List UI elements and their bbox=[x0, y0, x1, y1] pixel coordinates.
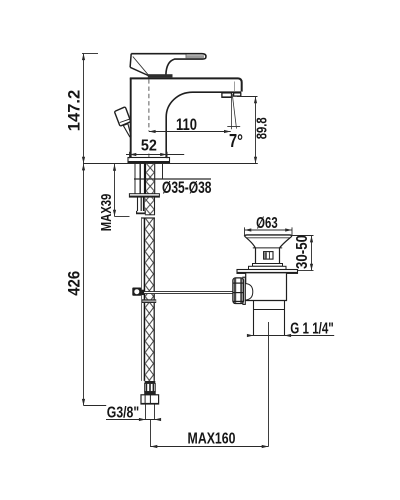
deck line bbox=[83, 163, 258, 165]
svg-text:52: 52 bbox=[141, 138, 157, 155]
dimension MAX39 bbox=[98, 164, 130, 231]
pop-up rod knob bbox=[115, 107, 131, 137]
pop-up rod (below deck) bbox=[135, 163, 140, 193]
threaded shank with hose (above mounting nut) bbox=[144, 163, 155, 193]
hose sleeve clip bbox=[142, 299, 156, 303]
label diameter 35-38 bbox=[162, 178, 212, 197]
linkage rod bbox=[143, 291, 233, 293]
mounting washer bbox=[129, 194, 159, 198]
mounting nut bbox=[137, 197, 155, 215]
faucet handle lever bbox=[130, 54, 206, 76]
svg-text:110: 110 bbox=[176, 116, 197, 134]
drain steps bbox=[249, 264, 287, 270]
faucet cartridge ring (dark band) bbox=[148, 74, 173, 77]
drain neck bbox=[256, 248, 280, 264]
svg-text:7°: 7° bbox=[229, 131, 243, 151]
svg-text:MAX39: MAX39 bbox=[98, 194, 115, 232]
dimension diameter 63 bbox=[245, 215, 293, 236]
dimension 30-50 bbox=[292, 235, 314, 271]
svg-text:G3/8": G3/8" bbox=[107, 404, 139, 421]
drain pop-up cap bbox=[244, 235, 292, 248]
svg-text:147.2: 147.2 bbox=[64, 90, 83, 132]
dimension 147.2 bbox=[64, 53, 98, 163]
drain flange bbox=[237, 270, 298, 274]
base plate bbox=[128, 158, 170, 164]
svg-text:G 1 1/4": G 1 1/4" bbox=[290, 320, 334, 337]
dimension G 1 1/4 inch bbox=[247, 320, 334, 446]
hose ferrule bbox=[144, 381, 156, 395]
hose hex nut G3/8 bbox=[141, 395, 159, 405]
faucet body with spout bbox=[130, 78, 242, 157]
dimension 89.8 bbox=[237, 97, 270, 164]
drain lever hole detail bbox=[264, 252, 273, 260]
dimension MAX160 bbox=[151, 420, 269, 449]
drain body bbox=[245, 273, 286, 300]
drain tailpipe bbox=[254, 301, 285, 336]
flexible hose bbox=[141, 218, 155, 381]
dimension G3/8 inch bbox=[106, 404, 161, 421]
angle 7 degrees bbox=[227, 94, 243, 151]
dimension 52 bbox=[126, 138, 184, 159]
svg-text:Ø35-Ø38: Ø35-Ø38 bbox=[162, 178, 212, 197]
svg-text:MAX160: MAX160 bbox=[188, 430, 236, 447]
dimension 426 bbox=[64, 164, 106, 406]
centerline (dashed) bbox=[148, 79, 150, 163]
svg-text:89.8: 89.8 bbox=[254, 117, 270, 139]
dimension 110 bbox=[149, 116, 231, 134]
pivot knurled nut bbox=[233, 278, 244, 304]
aerator bbox=[222, 93, 241, 98]
pivot washer plate bbox=[243, 277, 245, 304]
deck hole edge (right) bbox=[134, 164, 211, 180]
svg-text:30-50: 30-50 bbox=[294, 235, 311, 269]
svg-text:Ø63: Ø63 bbox=[256, 215, 278, 232]
rod clamp bbox=[132, 288, 144, 296]
svg-text:426: 426 bbox=[64, 271, 83, 296]
